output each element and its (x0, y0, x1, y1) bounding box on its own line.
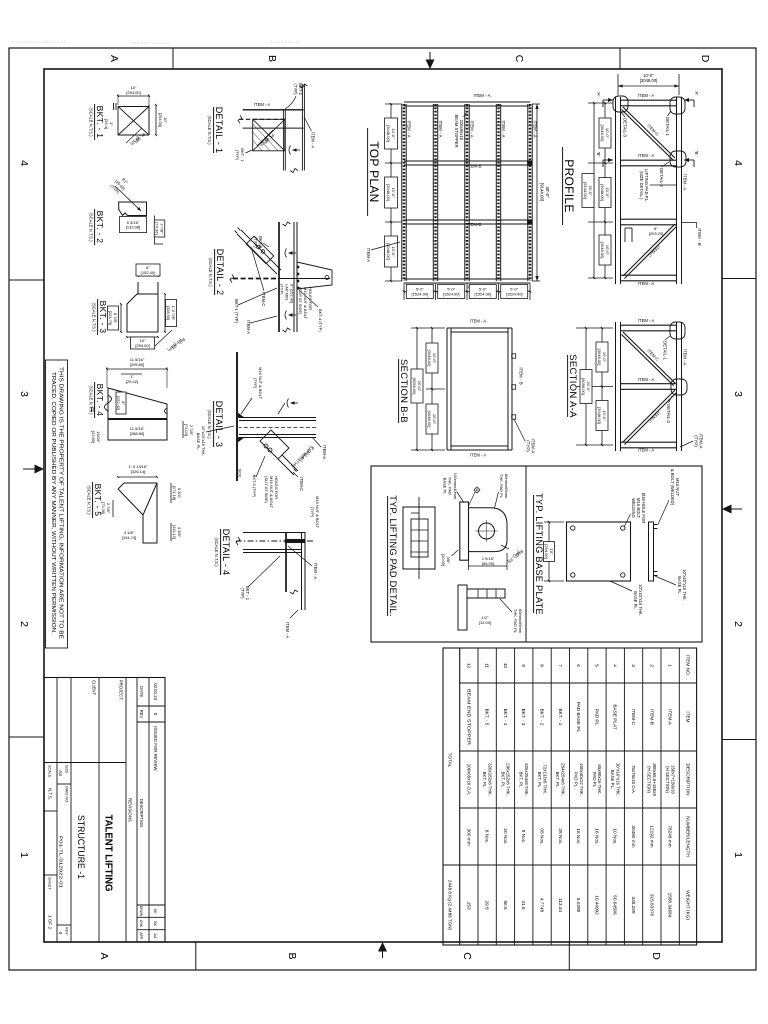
svg-text:[295.80]: [295.80] (130, 362, 144, 367)
svg-text:DETAIL-2: DETAIL-2 (659, 168, 664, 188)
lifting pad plan view (403, 507, 435, 569)
svg-text:8 Nos.: 8 Nos. (485, 830, 490, 844)
BKT-4 dim 6in (116, 392, 126, 414)
svg-text:[9144.00]: [9144.00] (583, 182, 588, 199)
svg-text:65x80x16 THK.: 65x80x16 THK. (597, 764, 602, 794)
svg-text:10.44992: 10.44992 (594, 895, 599, 915)
svg-text:2: 2 (18, 621, 30, 627)
svg-text:2: 2 (732, 621, 744, 627)
svg-text:2 7/8": 2 7/8" (159, 223, 164, 234)
svg-text:113.44: 113.44 (558, 898, 563, 912)
detail 2 gusset (297, 262, 332, 289)
BKT-3 dim 6in (138, 275, 158, 277)
detail 3 base plate line (236, 352, 238, 481)
svg-text:M16 NUT & BOLT: M16 NUT & BOLT (269, 476, 274, 509)
svg-text:TRACED, COPIED OR PUBLISHED BY: TRACED, COPIED OR PUBLISHED BY ANY MANNE… (50, 372, 56, 634)
svg-text:M12 NUT & BOLT: M12 NUT & BOLT (303, 287, 308, 320)
svg-text:8: 8 (539, 664, 544, 667)
section B-B cross beam stub 3 (512, 415, 516, 419)
top plan item-A horizontal beams (531, 104, 533, 281)
svg-text:BASE PLAT: BASE PLAT (613, 704, 618, 729)
svg-text:THK. PAD PL: THK. PAD PL (499, 474, 504, 499)
profile diagonal bay1 item-C (623, 107, 675, 158)
svg-text:A: A (108, 55, 120, 62)
svg-text:10 Nos.: 10 Nos. (613, 828, 618, 844)
svg-text:10'-0": 10'-0" (432, 353, 437, 364)
svg-text:3: 3 (631, 664, 636, 667)
svg-text:'B': 'B' (694, 151, 699, 156)
top plan right dimensions 5ft (529, 283, 531, 300)
svg-text:20 Nos.: 20 Nos. (503, 828, 508, 844)
section B-B dimensions (411, 327, 445, 329)
svg-text:10": 10" (163, 117, 168, 123)
svg-text:(9.53): (9.53) (258, 137, 269, 148)
svg-text:(TYP): (TYP) (253, 378, 258, 389)
svg-text:80mmx65mm: 80mmx65mm (504, 474, 509, 499)
pad front view (458, 585, 467, 630)
svg-text:10'-0": 10'-0" (602, 410, 607, 421)
svg-text:6": 6" (121, 401, 126, 405)
svg-text:3: 3 (18, 391, 30, 397)
svg-text:100x65x10 O.A.: 100x65x10 O.A. (466, 764, 471, 796)
svg-text:ITEM - A: ITEM - A (638, 318, 654, 323)
svg-text:SCALE: SCALE (48, 765, 52, 778)
svg-text:A3: A3 (58, 770, 63, 776)
BKT-4 top notch (165, 408, 168, 414)
svg-text:[254.00]: [254.00] (135, 343, 149, 348)
BKT-1 dim width 10in (155, 105, 157, 135)
svg-text:REVISIONS: REVISIONS (128, 798, 133, 822)
svg-text:(TYP): (TYP) (694, 435, 699, 447)
svg-text:20'-0": 20'-0" (586, 381, 591, 392)
svg-text:CHK: CHK (139, 920, 143, 928)
svg-text:[12.00]: [12.00] (479, 620, 491, 625)
svg-text:ITEM-A: ITEM-A (668, 709, 673, 726)
svg-text:ITEM-A: ITEM-A (699, 434, 704, 449)
svg-text:BKT. - 2: BKT. - 2 (539, 709, 544, 726)
svg-text:SIDE: SIDE (238, 468, 243, 477)
svg-text:TYP. LIFTING BASE PLATE: TYP. LIFTING BASE PLATE (534, 493, 544, 615)
svg-text:ITEM - A: ITEM - A (470, 319, 486, 324)
svg-text:ITEM - A: ITEM - A (254, 102, 270, 107)
detail 2 post (278, 278, 330, 280)
zone divider tick bottom-right (9, 736, 44, 738)
svg-text:ITEM - A: ITEM - A (311, 132, 316, 148)
svg-text:DETAIL - 3: DETAIL - 3 (214, 401, 224, 448)
detail 4 column flanges (243, 532, 305, 534)
svg-text:BKT. - 1: BKT. - 1 (95, 106, 105, 139)
section A-A diagonal bay2 (623, 390, 675, 442)
svg-text:[3048.00]: [3048.00] (427, 411, 432, 428)
zone divider tick left-upper (619, 48, 621, 69)
BKT-5 dim 6-3/4 (170, 483, 172, 503)
svg-text:BKT. PL: BKT. PL (537, 772, 542, 788)
base plate hole top-right (621, 573, 625, 577)
BKT-5 plate (118, 483, 157, 543)
svg-text:THIS DRAWING IS THE PROPERTY O: THIS DRAWING IS THE PROPERTY OF TALENT L… (58, 367, 64, 640)
BKT-1 flange mark (115, 103, 117, 110)
BKT-4 dim 11-5/16 inside (130, 426, 145, 436)
pad height dim (506, 553, 508, 570)
svg-text:SK: SK (153, 908, 158, 914)
BOM table frame (443, 648, 697, 945)
detail 4 beam bottom flange (285, 532, 287, 592)
title block frame (44, 678, 165, 943)
svg-text:4: 4 (732, 160, 744, 166)
svg-text:100mmx40mm: 100mmx40mm (453, 473, 458, 500)
lifting pad side view plate (460, 502, 469, 560)
svg-text:10: 10 (503, 663, 508, 669)
svg-text:[3048.00]: [3048.00] (597, 407, 602, 424)
svg-text:BKT. - 5: BKT. - 5 (485, 709, 490, 726)
svg-text:ITEM - B: ITEM - B (697, 228, 702, 245)
svg-text:M16 BOLT: M16 BOLT (636, 498, 641, 518)
BKT-4 dim 11-5/16 left (107, 368, 167, 370)
svg-text:ITEM NO.: ITEM NO. (685, 655, 690, 676)
svg-text:SECTION B-B: SECTION B-B (398, 359, 409, 423)
BKT-4 dim 1in (121, 373, 142, 375)
svg-text:[1524.00]: [1524.00] (443, 292, 460, 297)
svg-text:0: 0 (153, 713, 158, 716)
svg-text:335.228: 335.228 (631, 897, 636, 914)
svg-text:LAP MIN.: LAP MIN. (285, 284, 290, 301)
svg-text:ITEM - B: ITEM - B (519, 367, 524, 384)
svg-text:PAD PL: PAD PL (594, 709, 599, 726)
svg-text:(TYP): (TYP) (526, 440, 531, 452)
svg-text:C: C (513, 55, 525, 63)
svg-text:[224.79]: [224.79] (108, 311, 113, 325)
svg-text:BASE PL: BASE PL (442, 478, 447, 495)
svg-text:6" [152.40]: 6" [152.40] (290, 284, 295, 303)
svg-text:BKT-2: BKT-2 (298, 83, 303, 95)
detail 2 flange bolts (297, 266, 300, 269)
svg-text:80mmx65mm: 80mmx65mm (518, 609, 523, 634)
svg-text:B: B (266, 55, 278, 62)
detail 4 column centerline (236, 540, 313, 542)
section B-B top chord (511, 328, 513, 450)
BKT-1 dim height 10in (118, 95, 149, 97)
svg-text:THK. PAD: THK. PAD (448, 477, 453, 495)
svg-text:ITEM - A: ITEM - A (638, 153, 654, 158)
svg-text:BASE PL: BASE PL (633, 591, 638, 609)
lifting pad lug (469, 508, 508, 552)
svg-text:4: 4 (18, 160, 30, 166)
svg-text:STRUCTURE -1: STRUCTURE -1 (75, 815, 86, 879)
svg-text:4 3/8": 4 3/8" (177, 527, 182, 538)
BKT-3 dim 10in right (127, 336, 158, 338)
lifting box divider (525, 466, 527, 642)
detail 3 column flanges (239, 417, 316, 419)
detail 3 weld triangle left (238, 413, 244, 418)
svg-text:1: 1 (18, 852, 30, 858)
svg-text:29.8: 29.8 (485, 900, 490, 910)
svg-text:(SCALE N.T.S.): (SCALE N.T.S.) (89, 212, 94, 242)
svg-text:PAD PL: PAD PL (573, 772, 578, 788)
svg-text:150x7+150x10: 150x7+150x10 (670, 765, 675, 794)
svg-text:[203.20]: [203.20] (649, 231, 663, 236)
detail 4 beam top flange (304, 532, 306, 610)
svg-text:WELDING: WELDING (631, 498, 636, 518)
svg-text:[104.74]: [104.74] (122, 535, 136, 540)
title block revision column dividers (137, 705, 165, 707)
svg-text:SK: SK (153, 921, 158, 927)
detail 2 brace plate (246, 236, 274, 264)
svg-text:SHEET: SHEET (48, 877, 52, 890)
BKT-3 dim 8-7/8 (120, 304, 122, 332)
svg-text:BKT-4 (TYP): BKT-4 (TYP) (318, 309, 323, 332)
inner border frame (44, 69, 722, 942)
svg-text:DETAIL - 2: DETAIL - 2 (215, 249, 225, 296)
svg-text:[25.42]: [25.42] (126, 379, 138, 384)
title block project column divider (44, 762, 126, 764)
svg-text:BKT - 1: BKT - 1 (245, 586, 250, 601)
svg-text:(SIZE DETAIL.): (SIZE DETAIL.) (639, 171, 644, 200)
detail 3 weld symbol (293, 402, 298, 404)
detail 4 item-A label2 (290, 610, 298, 618)
detail 1 break marks (290, 169, 298, 173)
detail 4 end plate bar (285, 539, 305, 543)
top plan total dimension 30ft (532, 103, 540, 105)
svg-text:10"x10"x16 THK.: 10"x10"x16 THK. (615, 763, 620, 796)
svg-text:(TYP): (TYP) (310, 507, 315, 518)
svg-text:M16 NUT & BOLT: M16 NUT & BOLT (258, 367, 263, 400)
svg-text:28 Nos.: 28 Nos. (558, 828, 563, 844)
svg-text:SIZE: SIZE (65, 765, 69, 774)
svg-text:THK. PAD PL: THK. PAD PL (513, 609, 518, 634)
svg-text:LAP MIN. (TYP): LAP MIN. (TYP) (290, 445, 314, 469)
svg-text:ITEM-B: ITEM-B (649, 709, 654, 725)
svg-text:30480 mm: 30480 mm (631, 825, 636, 847)
svg-text:ITEM-A: ITEM-A (366, 248, 371, 262)
svg-text:ITEM - A: ITEM - A (638, 377, 654, 382)
svg-text:P01-TL-012022-01: P01-TL-012022-01 (58, 836, 64, 888)
svg-text:PAD PL: PAD PL (592, 772, 597, 788)
profile top chord item-A (681, 97, 683, 284)
svg-text:300x65.5+150x9: 300x65.5+150x9 (652, 763, 657, 796)
svg-text:BKT-3: BKT-3 (258, 236, 263, 248)
BKT-3 tab (138, 282, 158, 294)
svg-text:[9144.00]: [9144.00] (540, 183, 545, 201)
svg-text:10'-0": 10'-0" (605, 187, 610, 198)
svg-text:[152.42]: [152.42] (116, 396, 121, 410)
svg-text:ITEM-C: ITEM-C (647, 244, 661, 258)
property note box (46, 360, 68, 648)
svg-text:10"x10"x16 THK.: 10"x10"x16 THK. (201, 426, 206, 456)
svg-text:[73.36]: [73.36] (155, 222, 160, 234)
detail 3 brace bolt 1 (264, 444, 268, 448)
svg-text:BKT. PL: BKT. PL (519, 772, 524, 788)
svg-text:A: A (98, 952, 110, 959)
profile section cut B bottom (603, 159, 613, 161)
svg-text:(SCALE N.T.S.): (SCALE N.T.S.) (207, 115, 212, 145)
zone divider tick top-right (722, 739, 756, 741)
svg-text:PROJECT:: PROJECT: (119, 680, 124, 700)
svg-text:02.01.23: 02.01.23 (153, 683, 158, 700)
BKT-1 plate (148, 105, 150, 135)
center marker triangle left (426, 60, 435, 70)
svg-text:ITEM - A: ITEM - A (470, 453, 486, 458)
BKT-5 plate diagonal (143, 483, 157, 515)
BKT-2 dim 2-7/8 (154, 220, 165, 237)
svg-text:BASE PL: BASE PL (677, 576, 682, 594)
svg-text:(SCALE N.T.S.): (SCALE N.T.S.) (92, 302, 97, 332)
section A-A detail cloud left (670, 322, 685, 339)
svg-text:[3048.00]: [3048.00] (597, 349, 602, 366)
profile stub dimension (649, 226, 663, 236)
BKT-3 dim 1-0-7/8 top (164, 294, 166, 332)
svg-text:[326.14]: [326.14] (131, 469, 145, 474)
svg-text:10"x10"x16 THK.: 10"x10"x16 THK. (638, 584, 643, 616)
svg-text:0: 0 (58, 932, 63, 935)
svg-text:PROFILE: PROFILE (562, 159, 576, 212)
svg-text:[288.80]: [288.80] (130, 431, 144, 436)
svg-text:10'-0": 10'-0" (391, 187, 396, 198)
svg-text:HOLES FOR: HOLES FOR (274, 476, 279, 499)
svg-text:ITEM: ITEM (685, 711, 690, 722)
svg-text:ITEM-C: ITEM-C (646, 123, 660, 137)
detail 1 weld symbol (295, 149, 300, 151)
profile diagonal bay3 item-C (623, 224, 675, 276)
BKT-4 bottom notch (105, 395, 112, 411)
detail 2 brace lines (241, 230, 281, 270)
beam stopper mark 1 (527, 161, 531, 166)
section A-A top chord (681, 322, 683, 451)
svg-text:[3048.00]: [3048.00] (386, 125, 391, 142)
svg-text:DESCRIPTION: DESCRIPTION (685, 763, 690, 795)
svg-text:ITEM - A: ITEM - A (470, 120, 475, 137)
section A-A diagonal bay1 (623, 332, 675, 383)
profile height dimension 10ft (678, 74, 680, 95)
BKT-3 plate (127, 294, 158, 332)
svg-text:11: 11 (485, 663, 490, 668)
svg-text:ITEM - A: ITEM - A (638, 93, 654, 98)
top plan bottom dimensions 10ft (385, 103, 402, 105)
svg-text:M16 NUT: M16 NUT (675, 478, 680, 496)
svg-text:PAD BASE PL: PAD BASE PL (576, 702, 581, 733)
svg-text:[6096.00]: [6096.00] (581, 378, 586, 395)
svg-text:[111.13]: [111.13] (172, 525, 177, 539)
svg-text:4: 4 (613, 664, 618, 667)
svg-text:10"x10"x16 THK.: 10"x10"x16 THK. (682, 569, 687, 601)
svg-text:BKT. - 3: BKT. - 3 (98, 301, 108, 334)
center marker triangle right (378, 942, 387, 952)
svg-text:254x254x8 THK.: 254x254x8 THK. (561, 763, 566, 796)
svg-text:15/16": 15/16" (96, 431, 101, 443)
base plate hole top-left (621, 526, 625, 530)
svg-text:10": 10" (549, 549, 554, 555)
svg-text:30'-0": 30'-0" (545, 186, 550, 198)
svg-text:1": 1" (109, 122, 114, 126)
top plan item-B vertical beams (404, 101, 530, 103)
title block dwg-no row dividers (57, 783, 71, 785)
base plate square (567, 522, 631, 581)
svg-text:6.0288: 6.0288 (576, 898, 581, 913)
svg-text:ITEM - A: ITEM - A (683, 349, 688, 365)
svg-text:1: 1 (732, 852, 744, 858)
svg-text:BKT. - 2: BKT. - 2 (95, 211, 105, 244)
svg-text:41.6: 41.6 (521, 900, 526, 910)
svg-text:DESCRIPTION: DESCRIPTION (139, 799, 144, 828)
svg-text:ITEM - A: ITEM - A (313, 563, 318, 579)
svg-text:BEAM END STOPPER: BEAM END STOPPER (466, 689, 471, 746)
svg-text:BKT-5 (TYP): BKT-5 (TYP) (252, 475, 257, 498)
detail 1 hatch (253, 124, 278, 151)
svg-text:REV: REV (139, 710, 144, 719)
svg-text:DETAIL-3: DETAIL-3 (623, 118, 628, 138)
svg-text:6 3/4": 6 3/4" (177, 488, 182, 499)
svg-text:56.5: 56.5 (503, 900, 508, 910)
svg-text:7: 7 (558, 664, 563, 667)
svg-text:[3048.00]: [3048.00] (427, 350, 432, 367)
svg-text:.153: .153 (466, 900, 471, 910)
svg-text:N.T.S.: N.T.S. (48, 788, 53, 800)
profile posts (621, 99, 677, 101)
detail 2 weld symbol left (291, 252, 296, 254)
svg-text:[23.80]: [23.80] (91, 431, 96, 443)
svg-text:9: 9 (521, 664, 526, 667)
svg-text:1'-0 7/8": 1'-0 7/8" (171, 306, 176, 321)
BKT-2 dim 2-7/8 extension (153, 216, 155, 245)
svg-text:BKT. - 1: BKT. - 1 (558, 709, 563, 726)
svg-text:[328.50]: [328.50] (166, 306, 171, 320)
svg-text:SECTION A-A: SECTION A-A (567, 354, 578, 418)
faint plot stamp marks outside border (11, 41, 65, 43)
BKT-2 plate (119, 202, 147, 216)
svg-text:ITEM-B: ITEM-B (467, 222, 482, 227)
svg-text:296x152x8 THK.: 296x152x8 THK. (506, 763, 511, 796)
svg-text:(TYP): (TYP) (166, 342, 177, 353)
svg-text:LIFTING PAD PL: LIFTING PAD PL (644, 169, 649, 201)
svg-text:ISSUED FOR REVIEW.: ISSUED FOR REVIEW. (153, 726, 158, 771)
profile beam stopper stub (631, 228, 633, 242)
svg-text:(9.53): (9.53) (129, 136, 140, 147)
svg-text:8 Nos.: 8 Nos. (521, 830, 526, 844)
svg-text:100x40x12 THK.: 100x40x12 THK. (579, 763, 584, 796)
svg-text:'A': 'A' (694, 91, 699, 96)
svg-text:2 7/8": 2 7/8" (106, 503, 111, 514)
svg-text:ITEM-C: ITEM-C (646, 348, 660, 362)
beam stopper mark 2 (527, 220, 531, 225)
svg-text:16 Nos.: 16 Nos. (594, 828, 599, 844)
svg-text:ITEM-C: ITEM-C (647, 410, 661, 424)
detail 3 brace plate (260, 430, 289, 459)
svg-text:BKT-1 (TYP): BKT-1 (TYP) (234, 299, 239, 323)
svg-text:(H SECTION): (H SECTION) (647, 766, 652, 793)
svg-text:NUMBER/LENGTH: NUMBER/LENGTH (685, 816, 690, 857)
detail 2 break marks (283, 222, 291, 226)
svg-text:100x65x10: 100x65x10 (459, 120, 464, 141)
svg-text:4.7748: 4.7748 (539, 898, 544, 913)
svg-text:BASE PL.: BASE PL. (610, 770, 615, 790)
svg-text:8 7/8": 8 7/8" (113, 313, 118, 324)
svg-text:(SCALE N.T.S.): (SCALE N.T.S.) (214, 537, 219, 567)
detail 3 weld triangle right (238, 438, 244, 443)
svg-text:& BOLT (WELDED): & BOLT (WELDED) (670, 469, 675, 506)
svg-text:10'-0": 10'-0" (605, 128, 610, 139)
section B-B bottom chord (450, 328, 452, 450)
svg-text:AA: AA (153, 933, 158, 939)
svg-text:DETAIL - 1: DETAIL - 1 (214, 107, 224, 154)
svg-text:BKT. - 5: BKT. - 5 (93, 484, 103, 517)
pad front view dim (479, 615, 491, 625)
svg-text:APP.: APP. (139, 932, 143, 940)
detail 1 beam top flange (303, 84, 305, 171)
svg-text:326x182x8 THK.: 326x182x8 THK. (487, 763, 492, 796)
svg-text:(152.40): (152.40) (141, 270, 157, 275)
svg-text:[73.03]: [73.03] (184, 424, 189, 436)
section B-B cross beam stub 2 (512, 385, 516, 389)
svg-text:ITEM - A: ITEM - A (285, 622, 290, 638)
